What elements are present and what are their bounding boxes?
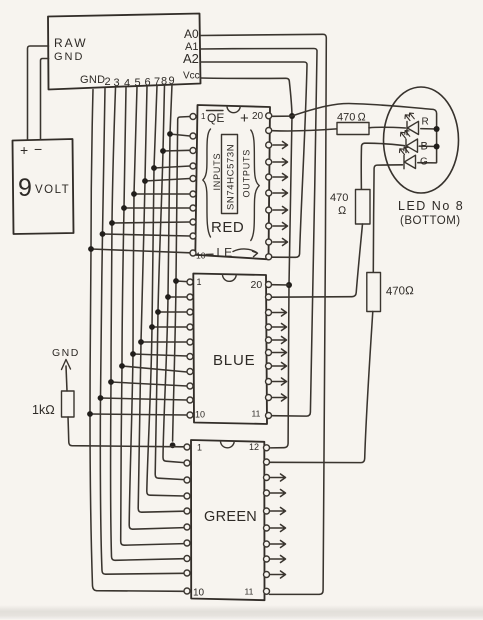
wire rail pin 3 xyxy=(108,88,190,560)
resistor R4 1k ohm xyxy=(62,366,75,417)
resistor R3 470 ohm xyxy=(367,273,381,312)
svg-text:INPUTS: INPUTS xyxy=(212,153,222,191)
U2 output pins with arrows xyxy=(266,309,287,401)
U2 pin 11 circle xyxy=(266,413,272,419)
svg-text:1: 1 xyxy=(197,277,202,287)
svg-text:B: B xyxy=(421,141,428,153)
svg-text:2: 2 xyxy=(105,76,111,88)
svg-text:10: 10 xyxy=(193,588,205,599)
svg-text:10: 10 xyxy=(195,410,205,420)
latch U2 BLUE outline xyxy=(193,274,267,425)
U3 pin 1 circle xyxy=(184,444,190,450)
svg-text:470Ω: 470Ω xyxy=(386,285,415,298)
wire rail pin 8 xyxy=(155,85,190,480)
U1 output pins with arrows xyxy=(266,142,288,246)
svg-text:GND: GND xyxy=(52,347,80,359)
svg-text:1: 1 xyxy=(201,112,206,121)
svg-text:G: G xyxy=(420,157,428,168)
svg-text:VOLT: VOLT xyxy=(35,184,70,196)
wire RED pin 19 to R1 xyxy=(273,129,337,131)
svg-text:−: − xyxy=(34,141,42,157)
wire GND to battery - xyxy=(41,59,49,140)
U1 output brace xyxy=(251,130,259,241)
svg-text:GND: GND xyxy=(80,74,105,86)
U1 input brace xyxy=(203,129,211,237)
wire RED pin 20 to Vcc rail xyxy=(273,115,293,117)
svg-text:3: 3 xyxy=(114,77,120,89)
U1 input pins (left) xyxy=(190,133,196,139)
wire A0 to GREEN LE (pin 11) xyxy=(201,34,327,594)
wire LED G to R3 xyxy=(373,165,402,272)
svg-text:A2: A2 xyxy=(183,51,199,66)
resistor R1 470 ohm xyxy=(337,123,369,135)
U3 pin 20 circle xyxy=(264,445,270,451)
wire LED common anode net xyxy=(292,103,440,162)
wire rail pin 4 xyxy=(119,88,190,546)
U1 pin 19 circle xyxy=(266,128,272,134)
svg-text:LE: LE xyxy=(217,246,234,260)
svg-text:Ω: Ω xyxy=(338,205,347,217)
svg-text:470 Ω: 470 Ω xyxy=(337,112,367,124)
svg-text:A0: A0 xyxy=(184,27,199,41)
battery BT1 outline xyxy=(13,139,74,234)
U2 pin 10 circle xyxy=(187,412,193,418)
wire R1 to LED R xyxy=(369,126,406,129)
wire LED B to R2 xyxy=(361,143,404,189)
svg-text:SN74HC573N: SN74HC573N xyxy=(226,144,237,210)
wire rail pin 2 xyxy=(98,89,190,575)
U3 notch xyxy=(220,441,234,448)
latch U1 RED outline xyxy=(195,105,270,259)
svg-text:GREEN: GREEN xyxy=(204,509,257,525)
wire Vcc rail xyxy=(201,78,296,448)
svg-text:+: + xyxy=(240,110,249,127)
wire R3 to GREEN pin 19 xyxy=(270,312,373,463)
svg-text:(BOTTOM): (BOTTOM) xyxy=(400,215,461,227)
wire A2 to RED LE (pin 11) xyxy=(201,62,308,257)
U2 pin 20 circle xyxy=(266,282,272,288)
svg-text:4: 4 xyxy=(124,78,130,90)
wire rail pin 9 xyxy=(163,85,190,463)
svg-text:20: 20 xyxy=(252,111,264,122)
svg-text:Vcc: Vcc xyxy=(183,71,200,82)
svg-text:12: 12 xyxy=(249,442,259,452)
resistor R2 470 ohm xyxy=(356,190,371,225)
svg-text:R: R xyxy=(422,117,429,128)
U1 pin 1 circle xyxy=(190,114,196,120)
svg-text:+: + xyxy=(20,142,28,158)
svg-text:10: 10 xyxy=(196,251,206,261)
svg-text:RED: RED xyxy=(211,219,244,236)
svg-text:11: 11 xyxy=(252,409,261,419)
wire R4 to GREEN pin1 / OE net xyxy=(68,417,184,447)
latch U3 GREEN outline xyxy=(191,440,265,600)
U3 pin 10 circle xyxy=(184,588,190,594)
svg-text:9: 9 xyxy=(18,174,32,202)
wire GND rail xyxy=(87,90,190,592)
U1 part number box SN74HC573N xyxy=(222,135,238,214)
wire BLUE pin 20 to Vcc rail xyxy=(272,284,290,286)
wire A1 to BLUE LE (pin 11) xyxy=(201,49,318,417)
wire rail pin 5 xyxy=(129,87,190,529)
U1 pin 10 circle xyxy=(190,250,196,256)
U3 output pins with arrows xyxy=(264,474,286,578)
LED D1 R xyxy=(405,113,419,135)
svg-text:OUTPUTS: OUTPUTS xyxy=(242,149,252,198)
U1 pin 20 circle xyxy=(266,113,272,119)
svg-text:RAW: RAW xyxy=(54,36,88,50)
svg-text:QE: QE xyxy=(207,111,224,125)
svg-text:1kΩ: 1kΩ xyxy=(32,403,55,417)
LED D3 G xyxy=(400,147,416,169)
wire R2 to BLUE pin 19 xyxy=(272,224,363,297)
U3 pin 11 circle xyxy=(264,588,270,594)
wire rail pin 7 xyxy=(147,86,190,497)
ground symbol arrow xyxy=(52,347,80,370)
svg-text:LED No 8: LED No 8 xyxy=(398,199,464,213)
U2 input pins (left) xyxy=(187,294,193,300)
svg-text:20: 20 xyxy=(251,279,263,291)
U2 pin 19 circle xyxy=(266,294,272,300)
U3 input pins (left) xyxy=(184,460,190,466)
U3 pin 19 circle xyxy=(264,459,270,465)
controller board outline xyxy=(48,14,201,90)
wire rail pin 6 xyxy=(138,87,190,513)
wire RAW to battery + xyxy=(28,46,49,140)
U1 notch xyxy=(227,106,240,113)
U2 notch xyxy=(222,274,236,281)
U2 pin 1 circle xyxy=(187,279,193,285)
svg-text:1: 1 xyxy=(197,443,202,453)
svg-text:11: 11 xyxy=(245,587,254,597)
svg-text:BLUE: BLUE xyxy=(213,352,255,369)
LED D2 B xyxy=(401,131,418,153)
U1 pin 11 circle xyxy=(266,254,272,260)
LED module boundary ellipse xyxy=(384,87,459,193)
svg-text:470: 470 xyxy=(330,192,348,204)
svg-text:GND: GND xyxy=(54,51,84,63)
wire OE net (latch pin 1 rail) xyxy=(170,117,190,449)
